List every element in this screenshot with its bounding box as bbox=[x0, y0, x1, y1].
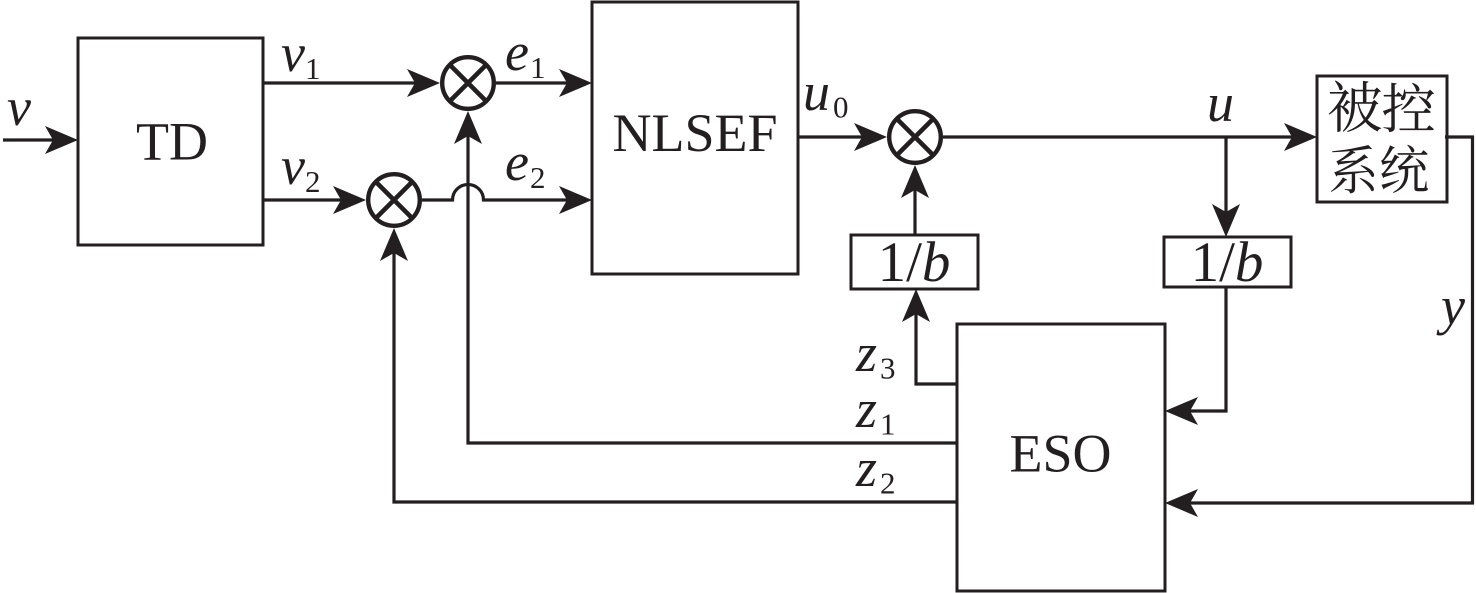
summing junction J3 (u) (circle-cross) bbox=[889, 111, 941, 163]
svg-text:1/b: 1/b bbox=[878, 231, 951, 294]
svg-text:TD: TD bbox=[136, 112, 208, 172]
wire v input bbox=[3, 126, 78, 154]
wire u branch down to 1/b right bbox=[1212, 137, 1240, 237]
label v1 bbox=[281, 23, 321, 86]
svg-text:z: z bbox=[855, 323, 877, 383]
wire u0: NLSEF to J3 bbox=[798, 123, 887, 151]
block ESO bbox=[957, 324, 1165, 591]
wire z1: ESO to J1 bbox=[454, 111, 957, 443]
wire e2: J2 to NLSEF with hop over z1 line bbox=[422, 184, 592, 214]
svg-text:v: v bbox=[7, 77, 31, 137]
summing junction J2 (e2) (circle-cross) bbox=[368, 174, 420, 226]
wire z2: ESO to J2 bbox=[380, 228, 957, 502]
wire y feedback: controlled-system to ESO bbox=[1165, 137, 1473, 517]
wire v1: TD to J1 bbox=[263, 69, 440, 97]
svg-text:ESO: ESO bbox=[1009, 424, 1111, 484]
svg-text:v: v bbox=[281, 23, 305, 83]
block 1/b left bbox=[851, 231, 978, 294]
label v2 bbox=[281, 136, 321, 199]
svg-text:1: 1 bbox=[880, 407, 896, 442]
label u0 bbox=[803, 62, 849, 125]
label z1 bbox=[855, 379, 896, 442]
wire 1/b left to J3 bbox=[901, 165, 929, 235]
label z3 bbox=[855, 323, 896, 386]
label u bbox=[1207, 73, 1234, 133]
svg-text:u: u bbox=[1207, 73, 1234, 133]
svg-text:v: v bbox=[281, 136, 305, 196]
svg-text:1: 1 bbox=[530, 50, 546, 85]
summing junction J1 (e1) (circle-cross) bbox=[442, 57, 494, 109]
svg-text:0: 0 bbox=[833, 90, 849, 125]
svg-text:3: 3 bbox=[880, 351, 896, 386]
wire 1/b right to ESO bbox=[1165, 287, 1226, 425]
wire v2: TD to J2 bbox=[263, 186, 366, 214]
svg-text:z: z bbox=[855, 438, 877, 498]
svg-text:1: 1 bbox=[305, 51, 321, 86]
wire z3: ESO to 1/b left bbox=[902, 289, 957, 384]
block NLSEF bbox=[592, 2, 798, 274]
label z2 bbox=[855, 438, 896, 501]
svg-text:2: 2 bbox=[530, 160, 546, 195]
label e1 bbox=[505, 22, 546, 85]
svg-text:e: e bbox=[505, 22, 529, 82]
svg-text:2: 2 bbox=[880, 466, 896, 501]
svg-text:z: z bbox=[855, 379, 877, 439]
block controlled-system (被控系统) bbox=[1317, 76, 1447, 202]
wire e1: J1 to NLSEF bbox=[496, 69, 592, 97]
svg-text:e: e bbox=[505, 132, 529, 192]
svg-text:1/b: 1/b bbox=[1191, 231, 1264, 294]
svg-text:NLSEF: NLSEF bbox=[612, 103, 777, 163]
label y bbox=[1436, 276, 1465, 336]
block 1/b right bbox=[1164, 231, 1291, 294]
wire u: J3 to controlled-system bbox=[943, 123, 1317, 151]
block TD bbox=[78, 38, 263, 245]
svg-text:2: 2 bbox=[305, 164, 321, 199]
label e2 bbox=[505, 132, 546, 195]
svg-text:y: y bbox=[1436, 276, 1465, 336]
label v bbox=[7, 77, 31, 137]
svg-text:u: u bbox=[803, 62, 830, 122]
